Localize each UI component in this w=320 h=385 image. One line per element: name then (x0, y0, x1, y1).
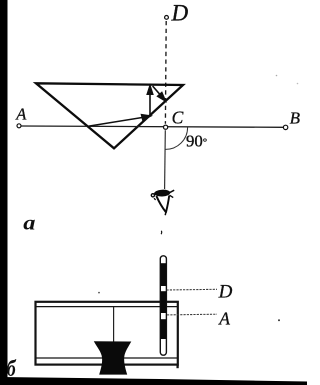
node A circle (17, 124, 21, 128)
leader line to A (figure b) (167, 313, 217, 316)
prism (triangle) (36, 83, 183, 148)
svg-text:D: D (171, 1, 189, 26)
svg-text:a: a (23, 211, 35, 233)
point D (source) circle (165, 16, 169, 20)
stand (spool) silhouette (94, 341, 132, 374)
svg-text:D: D (218, 282, 233, 303)
svg-text:A: A (218, 309, 230, 329)
stray specks (98, 292, 100, 294)
tray rectangle (figure b) (36, 302, 178, 368)
ray arrow 1: long ray inside prism (87, 115, 150, 127)
node B circle (283, 125, 287, 129)
wire: horizontal line A-B (21, 126, 284, 127)
svg-text:B: B (290, 108, 301, 127)
wire: ray C down to eye (164, 130, 167, 189)
90 degree arc at C (165, 127, 187, 149)
pencil strip (160, 256, 166, 355)
svg-text:б: б (7, 357, 17, 382)
wire: dashed ray D to C (164, 21, 167, 124)
eye symbol (151, 189, 174, 215)
leader line to D (figure b) (167, 288, 218, 291)
svg-text:A: A (15, 104, 27, 123)
speck below eye (160, 231, 163, 234)
svg-text:C: C (172, 108, 184, 128)
node C circle (164, 125, 168, 129)
ray arrow 3: diagonal ray down to hypotenuse (153, 86, 166, 101)
ray arrow 2: vertical ray up to top face (147, 86, 152, 116)
center post line (113, 307, 115, 342)
